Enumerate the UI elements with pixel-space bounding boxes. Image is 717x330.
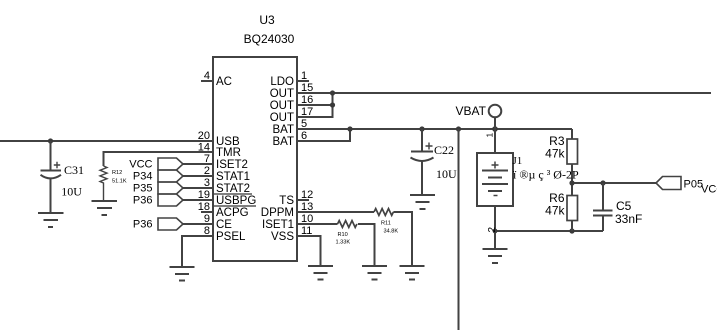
ground : under R10 <box>362 266 387 280</box>
port label P34 <box>133 171 153 183</box>
ground : under C22 <box>410 195 435 209</box>
wire : vertical line to bottom edge <box>458 129 460 330</box>
resistor R3 <box>567 129 578 183</box>
svg-text:ï ®µ ç ³ Ø-2P: ï ®µ ç ³ Ø-2P <box>512 168 579 182</box>
pin name ISET2 <box>216 159 248 171</box>
IC U3 BQ24030 body <box>213 57 297 261</box>
svg-text:1.33K: 1.33K <box>336 240 351 246</box>
svg-text:8: 8 <box>204 225 210 237</box>
value 10U C22 <box>436 167 457 181</box>
pin number 1 <box>301 70 307 82</box>
svg-text:BQ24030: BQ24030 <box>244 32 295 46</box>
wire : DPPM pin13 to R11 <box>297 211 374 213</box>
pin name CE <box>216 219 232 231</box>
value 47k R6 <box>545 204 565 218</box>
pin number 20 <box>198 130 210 142</box>
value 10U C31 <box>61 185 82 199</box>
label VCC net <box>701 184 717 196</box>
pin number 2 J1 <box>487 227 498 233</box>
wire : PSEL pin8 to ground <box>182 236 213 267</box>
svg-text:DPPM: DPPM <box>261 207 294 219</box>
pin name BAT 5 <box>272 124 294 136</box>
svg-text:C5: C5 <box>616 199 632 213</box>
pin number 7 <box>204 153 210 165</box>
label VBAT <box>456 104 487 118</box>
pin number 19 <box>198 189 210 201</box>
pin number 16 <box>301 94 313 106</box>
svg-text:CE: CE <box>216 219 232 231</box>
svg-text:10U: 10U <box>436 167 457 181</box>
pin number 6 <box>301 130 307 142</box>
pin number 10 <box>301 213 313 225</box>
pin number 9 <box>204 213 210 225</box>
pin name ACPG <box>216 207 249 219</box>
ground : under PSEL wire <box>170 267 195 281</box>
pin number 18 <box>198 201 210 213</box>
pin name TMR <box>216 147 241 159</box>
port P36 <box>158 194 183 206</box>
power VBAT <box>489 105 502 129</box>
svg-text:R10: R10 <box>338 232 348 238</box>
node : BAT junction pin6 <box>347 126 352 131</box>
wire : R11 to ground <box>393 212 412 266</box>
pin name USBPG <box>214 195 256 207</box>
node : BAT junction down line <box>456 126 461 131</box>
svg-text:9: 9 <box>204 213 210 225</box>
wire : mid node R3/R6 to port P05 <box>572 182 656 184</box>
pin number 4 <box>204 70 210 82</box>
node : junction R3/R6 <box>569 180 574 185</box>
pin 4 AC stub <box>201 80 213 82</box>
pin 12 TS stub <box>297 199 309 201</box>
wire : USB net from left edge to pin20 <box>0 140 213 142</box>
port P36 CE <box>158 218 183 230</box>
svg-text:3: 3 <box>204 177 210 189</box>
pin number 8 <box>204 225 210 237</box>
pin name OUT 16 <box>270 100 294 112</box>
pin name ISET1 <box>262 219 294 231</box>
svg-text:P35: P35 <box>133 183 153 195</box>
wire : OUT pin16 <box>297 104 333 106</box>
svg-text:C31: C31 <box>64 163 84 177</box>
value 51.1K <box>112 179 127 185</box>
pin name DPPM <box>261 207 294 219</box>
label P05 <box>684 179 704 191</box>
node : BAT junction VBAT/J1 <box>492 126 498 132</box>
pin name PSEL <box>216 231 246 243</box>
svg-text:OUT: OUT <box>270 88 294 100</box>
node : junction battery/bottom wire <box>493 229 498 234</box>
svg-text:1: 1 <box>485 133 495 138</box>
svg-text:P36: P36 <box>133 195 153 207</box>
label C31 <box>64 163 84 177</box>
pin number 11 <box>301 225 312 237</box>
pin number 1 J1 <box>485 133 495 138</box>
value 47k R3 <box>545 147 565 161</box>
svg-text:VBAT: VBAT <box>456 104 487 118</box>
svg-text:PSEL: PSEL <box>216 231 246 243</box>
wire : BAT pin6 <box>297 129 350 141</box>
pin name OUT 17 <box>270 112 294 124</box>
node : OUT junction pin15 <box>330 90 335 95</box>
node : BAT junction C22 <box>419 126 424 131</box>
label R12 <box>112 170 122 176</box>
wire : battery minus to R6/C5 bottom <box>495 230 603 232</box>
pin number 2 <box>204 165 210 177</box>
svg-text:AC: AC <box>216 76 232 88</box>
port P35 <box>158 182 183 194</box>
capacitor C22 <box>411 129 434 195</box>
resistor R6 <box>567 183 578 231</box>
svg-text:13: 13 <box>301 201 313 213</box>
port label P36 <box>133 195 153 207</box>
pin name TS <box>279 195 294 207</box>
svg-text:33nF: 33nF <box>615 212 642 226</box>
svg-text:47k: 47k <box>545 147 565 161</box>
svg-text:11: 11 <box>301 225 312 237</box>
label R3 <box>549 134 565 148</box>
ground : under battery J1 <box>483 249 508 263</box>
port label P36 CE <box>133 219 153 231</box>
svg-text:STAT1: STAT1 <box>216 171 250 183</box>
pin 1 LDO stub <box>297 80 309 82</box>
capacitor C31 <box>41 141 62 213</box>
label C5 <box>616 199 632 213</box>
svg-text:ACPG: ACPG <box>216 207 249 219</box>
battery J1 <box>477 129 513 249</box>
svg-text:OUT: OUT <box>270 112 294 124</box>
svg-text:16: 16 <box>301 94 313 106</box>
svg-text:P36: P36 <box>133 219 153 231</box>
label C22 <box>434 143 454 157</box>
svg-text:VSS: VSS <box>271 231 294 243</box>
node : OUT junction pin16 <box>330 102 335 107</box>
port P34 <box>158 170 183 182</box>
value 33nF <box>615 212 642 226</box>
svg-text:ISET2: ISET2 <box>216 159 248 171</box>
wire : OUT net pin15 long line <box>297 92 711 94</box>
svg-text:R11: R11 <box>381 221 391 227</box>
svg-text:P34: P34 <box>133 171 153 183</box>
label R6 <box>549 191 565 205</box>
wire : TMR pin14 to R12 <box>104 152 214 166</box>
resistor R11 <box>374 209 393 216</box>
svg-text:J1: J1 <box>513 155 523 167</box>
port P05 <box>656 177 681 190</box>
svg-text:1: 1 <box>301 70 307 82</box>
wire : VSS pin11 to ground <box>297 236 321 266</box>
svg-text:LDO: LDO <box>270 76 294 88</box>
label J1 <box>513 155 523 167</box>
wire : OUT pin17 <box>297 93 333 117</box>
wire : ISET1 pin10 to R10 <box>297 223 338 225</box>
pin name LDO <box>270 76 294 88</box>
svg-text:18: 18 <box>198 201 210 213</box>
value battery type text <box>512 168 579 182</box>
wire : BAT net pin5 <box>297 128 572 130</box>
wire : P34 to STAT1 pin2 <box>183 175 213 177</box>
svg-text:20: 20 <box>198 130 210 142</box>
label BQ24030 <box>244 32 295 46</box>
svg-text:STAT2: STAT2 <box>216 183 250 195</box>
svg-text:BAT: BAT <box>272 136 294 148</box>
pin number 5 <box>301 118 307 130</box>
ground : under VSS <box>308 266 333 280</box>
pin name OUT 15 <box>270 88 294 100</box>
label R11 <box>381 221 391 227</box>
port label P35 <box>133 183 153 195</box>
svg-text:TMR: TMR <box>216 147 241 159</box>
svg-text:15: 15 <box>301 82 313 94</box>
pin number 13 <box>301 201 313 213</box>
pin name STAT1 <box>216 171 250 183</box>
value 34.8K <box>384 229 399 235</box>
wire : R10 to ground <box>358 224 375 266</box>
svg-text:2: 2 <box>204 165 210 177</box>
pin number 14 <box>198 142 210 154</box>
svg-text:6: 6 <box>301 130 307 142</box>
pin number 3 <box>204 177 210 189</box>
node : junction C5 top <box>600 180 605 185</box>
pin number 15 <box>301 82 313 94</box>
pin name BAT 6 <box>272 136 294 148</box>
svg-text:VCC: VCC <box>701 184 717 196</box>
svg-text:C22: C22 <box>434 143 454 157</box>
label R10 <box>338 232 348 238</box>
svg-text:12: 12 <box>301 189 313 201</box>
wire : P36 to USBPG pin19 <box>183 199 213 201</box>
svg-text:34.8K: 34.8K <box>384 229 399 235</box>
svg-text:BAT: BAT <box>272 124 294 136</box>
svg-text:17: 17 <box>301 106 313 118</box>
pin name VSS <box>271 231 294 243</box>
resistor R10 <box>338 221 357 228</box>
pin name STAT2 <box>214 183 252 195</box>
pin name AC <box>216 76 232 88</box>
ground : under R12 <box>92 201 118 215</box>
svg-text:4: 4 <box>204 70 210 82</box>
pin name USB <box>216 136 240 148</box>
svg-text:2: 2 <box>487 227 498 233</box>
pin 18 ACPG stub <box>201 211 213 213</box>
svg-text:VCC: VCC <box>129 159 152 171</box>
label U3 <box>259 13 275 27</box>
node : junction USB/C31 <box>48 138 53 143</box>
svg-text:51.1K: 51.1K <box>112 179 127 185</box>
wire : P36 to CE pin9 <box>183 223 213 225</box>
wire : P35 to STAT2 pin3 <box>183 187 213 189</box>
svg-text:47k: 47k <box>545 204 565 218</box>
resistor R12 <box>100 166 107 200</box>
port label VCC <box>129 159 152 171</box>
svg-text:ISET1: ISET1 <box>262 219 294 231</box>
svg-text:TS: TS <box>279 195 294 207</box>
node : junction R6 bottom <box>569 228 574 233</box>
ground : under C31 <box>38 213 64 227</box>
svg-text:10: 10 <box>301 213 313 225</box>
pin number 12 <box>301 189 313 201</box>
pin number 17 <box>301 106 313 118</box>
svg-text:10U: 10U <box>61 185 82 199</box>
svg-text:19: 19 <box>198 189 210 201</box>
svg-text:U3: U3 <box>259 13 275 27</box>
svg-text:5: 5 <box>301 118 307 130</box>
svg-text:14: 14 <box>198 142 210 154</box>
capacitor C5 <box>593 183 613 231</box>
svg-text:USBPG: USBPG <box>216 195 256 207</box>
svg-text:R12: R12 <box>112 170 122 176</box>
ground : under R11 <box>400 266 425 280</box>
port VCC <box>158 158 183 170</box>
svg-text:OUT: OUT <box>270 100 294 112</box>
wire : VCC to ISET2 pin7 <box>183 163 213 165</box>
value 1.33K <box>336 240 351 246</box>
svg-text:7: 7 <box>204 153 210 165</box>
